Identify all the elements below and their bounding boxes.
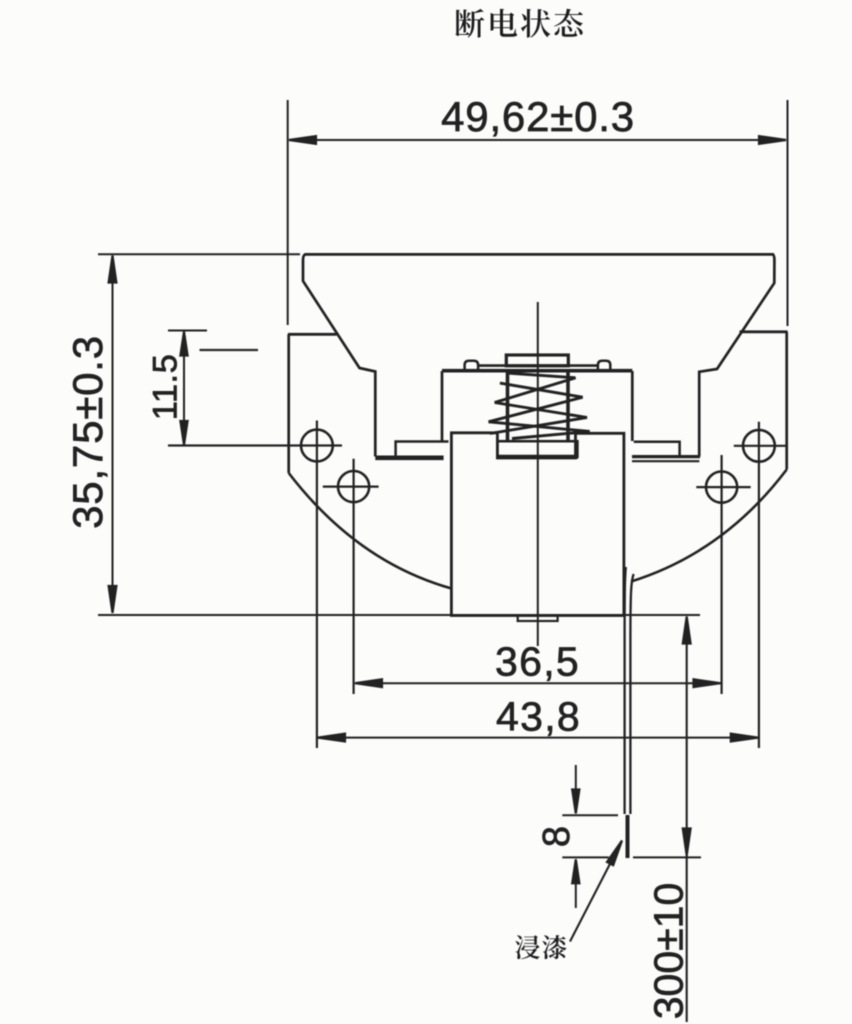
svg-text:43,8: 43,8 bbox=[496, 694, 581, 740]
mounting hole 2 bbox=[338, 471, 369, 502]
body top edge bbox=[305, 253, 775, 256]
hole 2 horizontal centerline bbox=[323, 486, 379, 488]
dim line 43.8 bbox=[318, 737, 758, 739]
body right shelf bbox=[740, 330, 788, 333]
hole 1 horizontal centerline bbox=[168, 444, 342, 446]
body bottom arc right bbox=[631, 470, 787, 582]
svg-text:11.5: 11.5 bbox=[147, 354, 185, 421]
dim arrow 8 lower bbox=[575, 860, 577, 908]
left foot plate bbox=[396, 442, 449, 457]
title text 断电状态 (power-off state) bbox=[455, 9, 583, 38]
hole 3 horizontal centerline bbox=[696, 486, 750, 488]
right foot plate bbox=[634, 442, 680, 456]
armature plate top line bbox=[478, 364, 598, 367]
left bump tab bbox=[465, 361, 479, 371]
mounting hole 3 bbox=[706, 472, 737, 503]
svg-text:49,62±0.3: 49,62±0.3 bbox=[441, 93, 635, 140]
plunger foot bottom (thick) bbox=[497, 455, 579, 459]
extension line 11.5 top bbox=[168, 330, 207, 332]
right bump tab bbox=[598, 361, 610, 371]
label text 浸漆 (dip varnish) bbox=[515, 935, 566, 959]
extension line 35.75 top bbox=[98, 253, 300, 255]
left bottom shelf (thick) bbox=[375, 455, 443, 460]
dim line 35.75 bbox=[112, 256, 114, 613]
spring coil zigzag bbox=[507, 373, 576, 378]
svg-text:300±10: 300±10 bbox=[646, 883, 692, 1020]
mounting hole 1 bbox=[301, 430, 333, 462]
body left slant profile bbox=[303, 254, 375, 456]
centerline bbox=[537, 302, 539, 646]
extension line 8 bottom bbox=[562, 856, 609, 858]
plunger foot bbox=[497, 441, 577, 456]
coil housing top line bbox=[442, 369, 632, 373]
lead wire right edge bbox=[630, 574, 633, 814]
extension line 8 top bbox=[562, 814, 618, 816]
bare wire end (dip varnish area) bbox=[626, 815, 630, 858]
central core block bbox=[451, 433, 624, 616]
spring rail left bbox=[506, 371, 510, 441]
coil housing left wall bbox=[441, 371, 444, 441]
svg-text:8: 8 bbox=[536, 826, 578, 847]
body left outer edge bbox=[287, 334, 290, 473]
body bottom arc left bbox=[289, 473, 452, 589]
right bottom shelf (thick) bbox=[632, 455, 700, 458]
hole 4 horizontal centerline bbox=[734, 445, 788, 447]
leader line 浸漆 bbox=[570, 843, 621, 942]
extension line 49.62 left bbox=[287, 100, 289, 325]
mounting hole 4 bbox=[743, 430, 775, 462]
dim line 36.5 bbox=[355, 682, 721, 684]
dim line 11.5 bbox=[183, 332, 185, 444]
hole 4 vertical centerline bbox=[758, 422, 760, 748]
top cap rectangle bbox=[506, 355, 568, 366]
dim arrow 8 upper bbox=[575, 765, 577, 813]
hole 2 vertical centerline bbox=[353, 459, 355, 694]
extension line 49.62 right bbox=[787, 100, 789, 326]
bottom tab bbox=[518, 616, 558, 622]
body right slant profile bbox=[699, 254, 774, 456]
body right outer edge bbox=[785, 332, 788, 470]
svg-text:35,75±0.3: 35,75±0.3 bbox=[64, 335, 111, 529]
spring rail right bbox=[566, 371, 570, 441]
reference dash near 11.5 bbox=[200, 349, 259, 351]
hole 3 vertical centerline bbox=[720, 455, 722, 694]
body left shelf bbox=[288, 333, 337, 336]
lead wire left edge bbox=[625, 567, 626, 814]
dim line 49.62 bbox=[289, 139, 786, 141]
dim line 300±10 bbox=[686, 617, 688, 1023]
svg-text:36,5: 36,5 bbox=[495, 639, 580, 685]
extension line 35.75 bottom / baseline bbox=[98, 614, 700, 616]
coil housing right wall bbox=[631, 371, 634, 441]
hole 1 vertical centerline bbox=[316, 421, 318, 749]
